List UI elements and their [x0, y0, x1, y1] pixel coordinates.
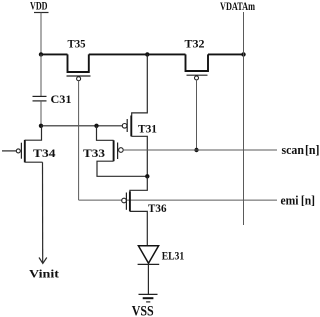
svg-text:T32: T32 — [185, 36, 205, 50]
wire T35 gate down to emi[n] — [78, 81, 80, 200]
wire T32 gate to scan[n] — [196, 80, 198, 150]
wire node A horizontal (T34 drain to T31 gate) — [41, 125, 122, 127]
svg-text:VSS: VSS — [132, 303, 154, 317]
transistor T36 — [122, 176, 167, 246]
wire top rail right segment — [208, 53, 244, 55]
svg-text:Vinit: Vinit — [29, 266, 59, 280]
junction at VDD / top rail — [39, 52, 43, 56]
svg-text:VDATAm: VDATAm — [220, 0, 255, 13]
junction at T31 drain / top rail — [145, 52, 149, 56]
svg-text:C31: C31 — [51, 92, 72, 106]
svg-text:scan [n]: scan [n] — [282, 142, 320, 157]
wire VDD vertical — [40, 13, 42, 55]
wire scan[n] horizontal — [123, 149, 277, 151]
junction T32 gate / scan[n] — [194, 148, 198, 152]
svg-text:T35: T35 — [68, 36, 86, 50]
svg-text:VDD: VDD — [30, 0, 48, 13]
ground VSS — [132, 294, 158, 317]
junction node A / T33 drain — [94, 124, 98, 128]
wire emi[n] horizontal — [79, 199, 277, 201]
junction node A left — [39, 124, 43, 128]
svg-text:T31: T31 — [138, 122, 157, 136]
transistor T32 — [185, 36, 209, 80]
junction at VDATAm / top rail — [241, 52, 245, 56]
net label VDD — [30, 0, 49, 13]
capacitor C31 — [33, 54, 72, 125]
transistor T35 — [67, 36, 91, 80]
wire VDATAm vertical — [243, 12, 245, 225]
svg-text:T33: T33 — [83, 146, 105, 160]
transistor T31 — [122, 54, 157, 176]
wire top rail left segment — [41, 53, 68, 55]
svg-text:T36: T36 — [148, 201, 167, 215]
svg-text:T34: T34 — [33, 146, 56, 160]
wire Vinit vertical with arrow — [39, 162, 47, 263]
svg-text:emi [n]: emi [n] — [281, 192, 316, 207]
svg-text:EL31: EL31 — [162, 249, 185, 263]
wire top rail middle segment — [89, 53, 186, 55]
LED EL31 — [138, 246, 185, 295]
transistor T33 — [83, 126, 147, 177]
junction T33 source / T31 source / T36 drain — [145, 174, 149, 178]
transistor T34 — [2, 126, 56, 163]
